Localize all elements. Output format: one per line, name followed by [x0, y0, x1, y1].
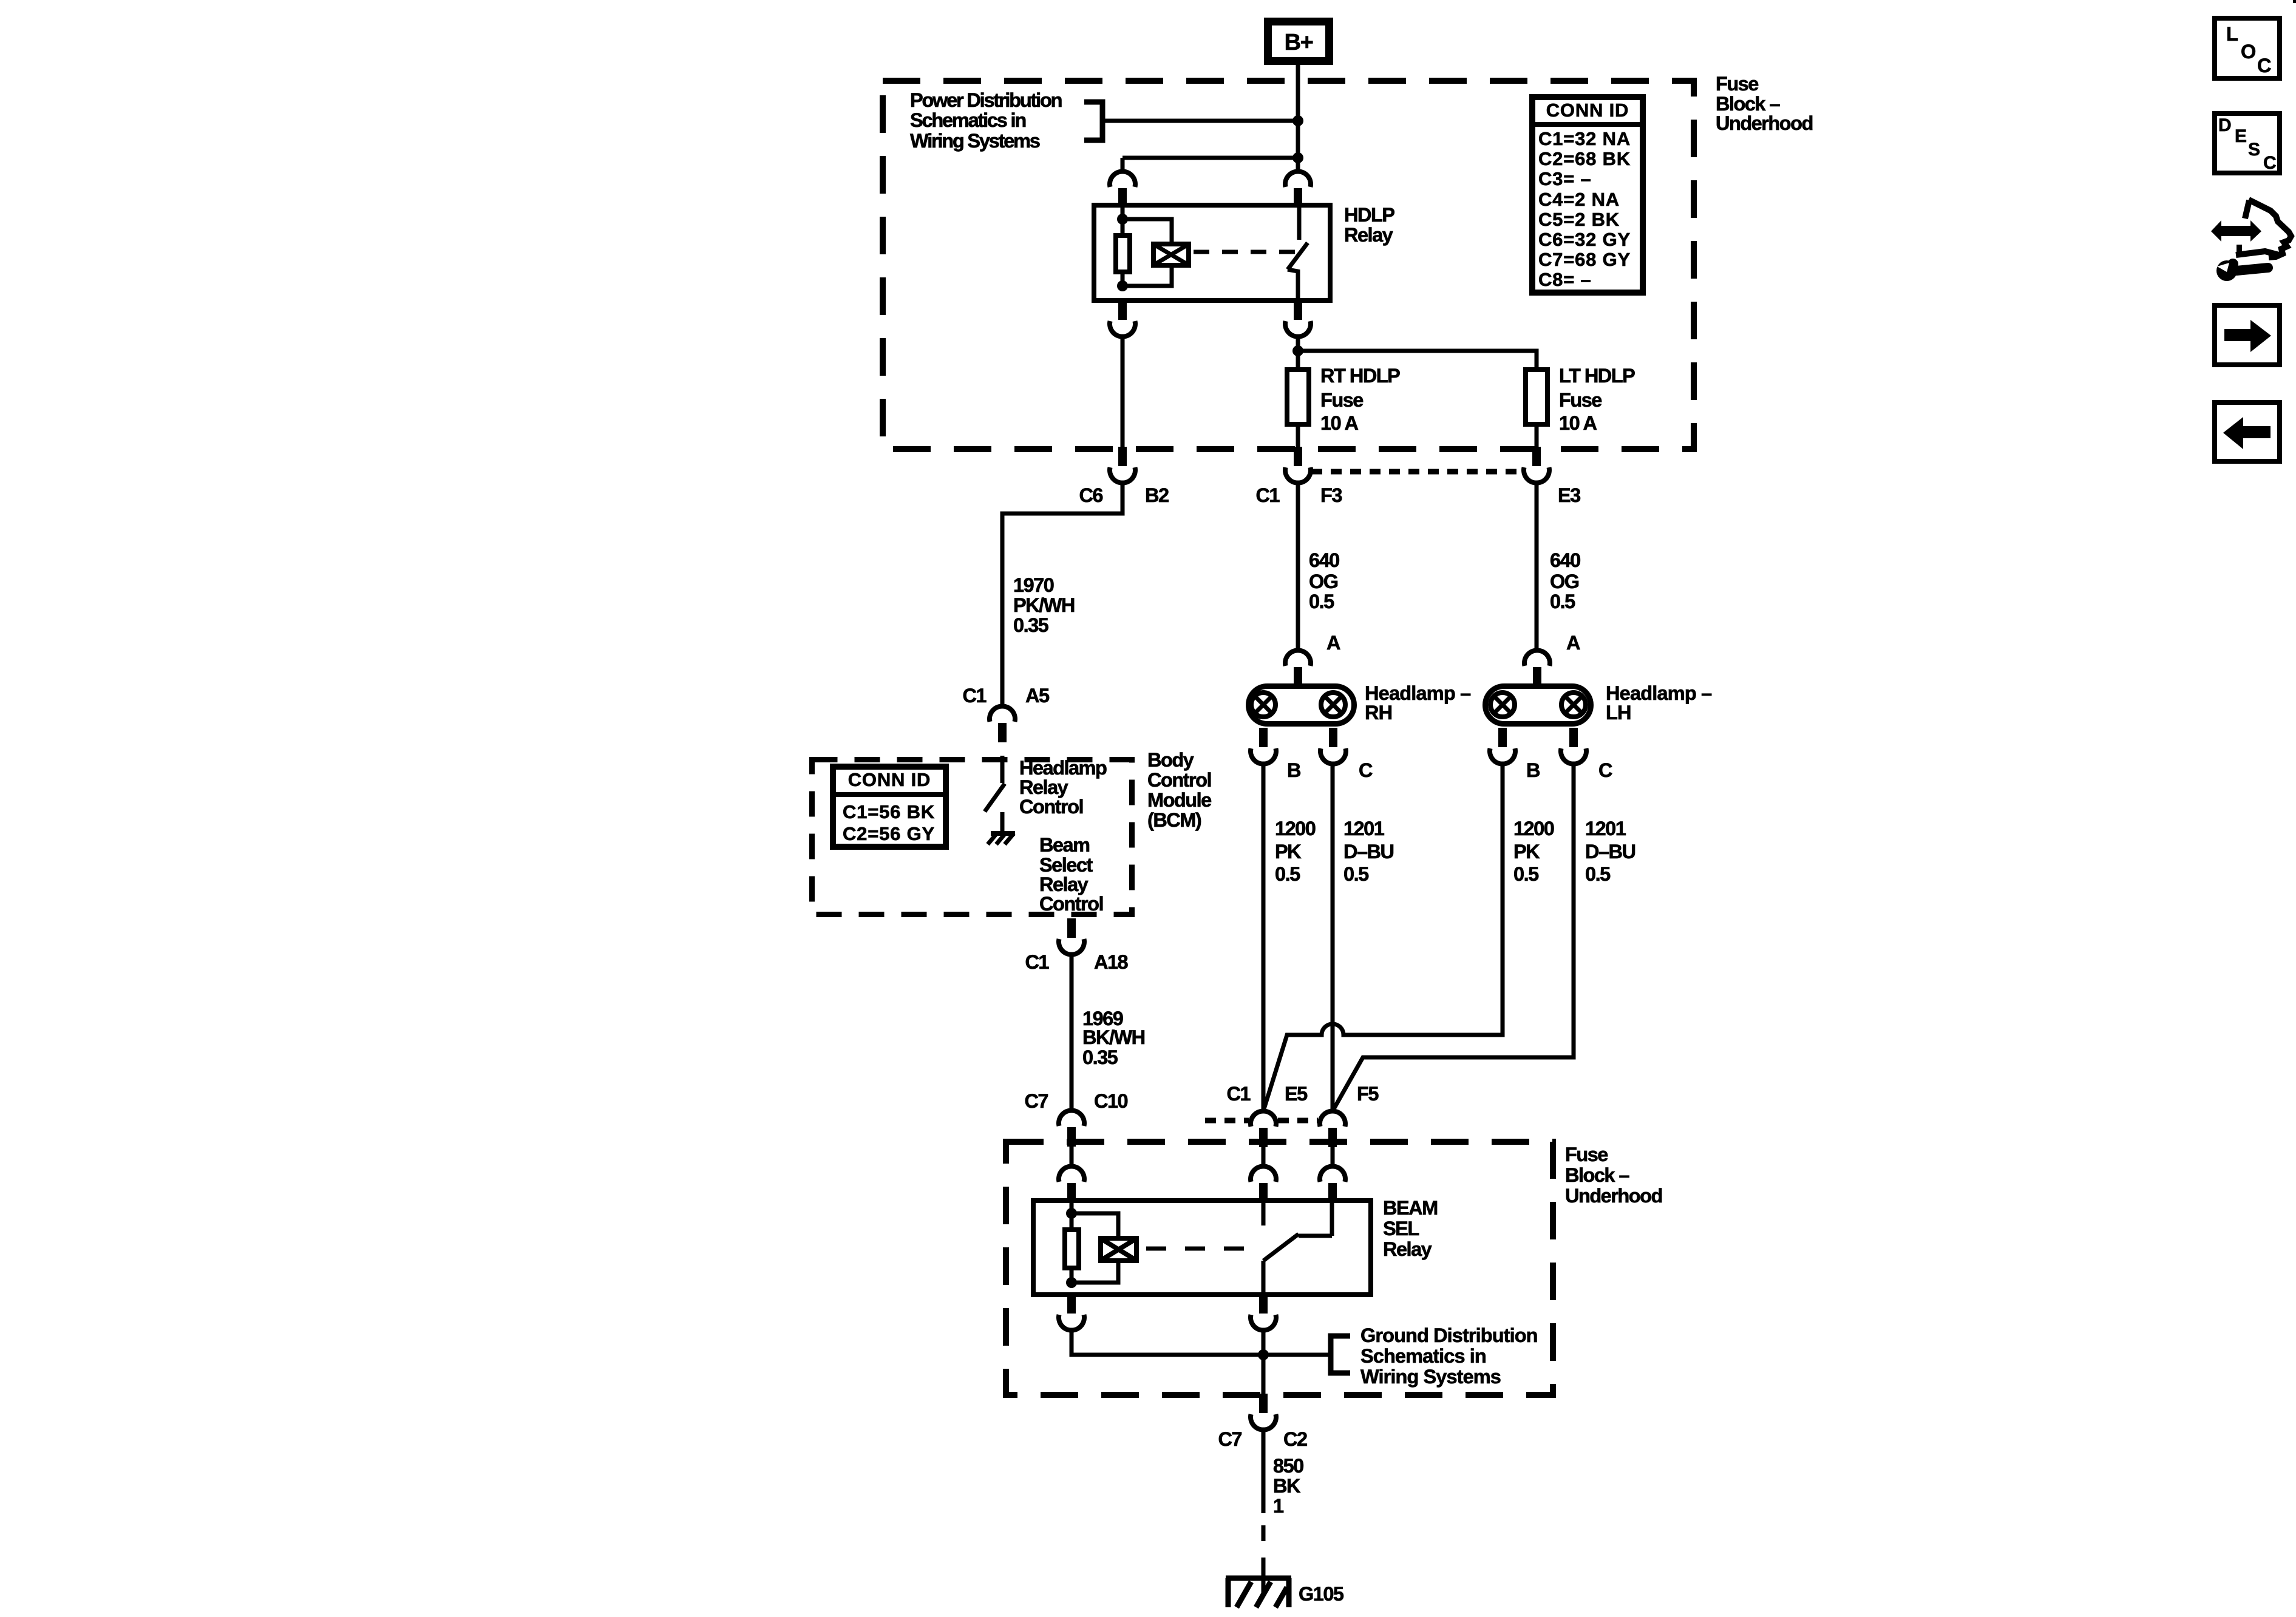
- svg-text:Headlamp –: Headlamp –: [1365, 682, 1471, 704]
- svg-text:Relay: Relay: [1039, 873, 1089, 895]
- svg-text:640: 640: [1309, 549, 1339, 571]
- svg-text:C1: C1: [962, 685, 987, 707]
- svg-text:0.5: 0.5: [1513, 863, 1539, 885]
- svg-text:C: C: [2263, 153, 2276, 173]
- svg-text:CONN ID: CONN ID: [848, 769, 931, 790]
- svg-text:C: C: [1598, 759, 1612, 781]
- svg-text:Beam: Beam: [1039, 834, 1090, 856]
- svg-text:C1=56 BK: C1=56 BK: [843, 801, 935, 822]
- svg-text:Select: Select: [1039, 854, 1093, 876]
- svg-text:F5: F5: [1357, 1083, 1379, 1105]
- svg-text:PK/WH: PK/WH: [1013, 594, 1075, 616]
- svg-text:850: 850: [1273, 1455, 1303, 1477]
- svg-text:Fuse: Fuse: [1565, 1144, 1608, 1165]
- svg-text:Control: Control: [1039, 893, 1103, 915]
- svg-text:BEAM: BEAM: [1383, 1197, 1438, 1219]
- svg-text:Relay: Relay: [1383, 1238, 1432, 1260]
- svg-text:HDLP: HDLP: [1344, 204, 1394, 226]
- svg-text:OG: OG: [1550, 571, 1579, 592]
- svg-text:B: B: [1287, 759, 1300, 781]
- svg-text:CONN ID: CONN ID: [1546, 100, 1629, 121]
- svg-text:LT HDLP: LT HDLP: [1559, 365, 1635, 387]
- svg-text:0.5: 0.5: [1309, 591, 1334, 612]
- svg-text:Body: Body: [1147, 749, 1194, 771]
- svg-text:C1: C1: [1226, 1083, 1251, 1105]
- svg-text:C6=32 GY: C6=32 GY: [1538, 229, 1631, 250]
- svg-text:Relay: Relay: [1019, 776, 1068, 798]
- svg-text:Schematics in: Schematics in: [1360, 1345, 1486, 1367]
- svg-text:PK: PK: [1275, 841, 1302, 863]
- svg-text:A: A: [1326, 632, 1340, 654]
- svg-text:BK/WH: BK/WH: [1082, 1026, 1145, 1048]
- svg-text:D–BU: D–BU: [1343, 841, 1394, 863]
- svg-text:1: 1: [1273, 1495, 1284, 1517]
- svg-text:C: C: [2257, 55, 2271, 76]
- svg-text:0.35: 0.35: [1013, 614, 1049, 636]
- svg-text:D: D: [2218, 115, 2231, 135]
- svg-text:640: 640: [1550, 549, 1580, 571]
- svg-text:Wiring Systems: Wiring Systems: [1360, 1366, 1501, 1388]
- svg-text:Underhood: Underhood: [1565, 1185, 1662, 1207]
- svg-text:B: B: [1526, 759, 1540, 781]
- svg-text:C1=32 NA: C1=32 NA: [1538, 128, 1631, 149]
- svg-text:OG: OG: [1309, 571, 1338, 592]
- svg-text:Control: Control: [1019, 796, 1083, 818]
- svg-text:10 A: 10 A: [1320, 412, 1358, 434]
- svg-text:1201: 1201: [1585, 818, 1626, 839]
- svg-text:C8= –: C8= –: [1538, 269, 1592, 290]
- svg-text:C: C: [1359, 759, 1373, 781]
- svg-text:Wiring Systems: Wiring Systems: [910, 130, 1040, 152]
- svg-text:S: S: [2248, 140, 2260, 160]
- svg-text:Block –: Block –: [1716, 93, 1781, 115]
- svg-text:0.5: 0.5: [1343, 863, 1369, 885]
- svg-text:C10: C10: [1094, 1090, 1128, 1112]
- svg-text:A: A: [1566, 632, 1580, 654]
- svg-text:RH: RH: [1365, 702, 1392, 724]
- svg-text:D–BU: D–BU: [1585, 841, 1635, 863]
- svg-text:A5: A5: [1025, 685, 1050, 707]
- svg-text:(BCM): (BCM): [1147, 809, 1201, 831]
- svg-text:E3: E3: [1558, 484, 1580, 506]
- svg-text:F3: F3: [1320, 484, 1342, 506]
- svg-text:Headlamp –: Headlamp –: [1606, 682, 1712, 704]
- svg-text:1200: 1200: [1275, 818, 1316, 839]
- svg-text:LH: LH: [1606, 702, 1631, 724]
- svg-text:RT HDLP: RT HDLP: [1320, 365, 1400, 387]
- svg-text:G105: G105: [1299, 1583, 1344, 1605]
- svg-text:0.5: 0.5: [1550, 591, 1575, 612]
- svg-text:Fuse: Fuse: [1716, 73, 1758, 95]
- svg-text:C7: C7: [1218, 1428, 1241, 1450]
- svg-text:E: E: [2235, 126, 2246, 146]
- svg-text:BK: BK: [1273, 1475, 1301, 1497]
- svg-text:Relay: Relay: [1344, 224, 1393, 246]
- svg-text:A18: A18: [1094, 951, 1129, 973]
- svg-text:O: O: [2241, 41, 2255, 63]
- svg-text:Schematics in: Schematics in: [910, 109, 1025, 131]
- svg-text:C3= –: C3= –: [1538, 168, 1592, 189]
- svg-text:1200: 1200: [1513, 818, 1554, 839]
- svg-text:C2=68 BK: C2=68 BK: [1538, 148, 1631, 169]
- svg-text:C2: C2: [1283, 1428, 1307, 1450]
- svg-text:0.35: 0.35: [1082, 1046, 1118, 1068]
- svg-text:Underhood: Underhood: [1716, 112, 1813, 134]
- svg-text:B2: B2: [1145, 484, 1169, 506]
- svg-text:C1: C1: [1025, 951, 1049, 973]
- svg-text:Ground Distribution: Ground Distribution: [1360, 1324, 1538, 1346]
- svg-text:C2=56 GY: C2=56 GY: [843, 823, 935, 844]
- svg-text:PK: PK: [1513, 841, 1540, 863]
- svg-text:Power Distribution: Power Distribution: [910, 89, 1062, 111]
- svg-text:0.5: 0.5: [1585, 863, 1611, 885]
- svg-text:L: L: [2226, 23, 2238, 45]
- svg-text:10 A: 10 A: [1559, 412, 1597, 434]
- svg-text:E5: E5: [1285, 1083, 1308, 1105]
- svg-text:Module: Module: [1147, 789, 1211, 811]
- svg-text:Headlamp: Headlamp: [1019, 757, 1107, 779]
- svg-text:0.5: 0.5: [1275, 863, 1300, 885]
- svg-text:C4=2 NA: C4=2 NA: [1538, 189, 1620, 210]
- svg-text:1201: 1201: [1343, 818, 1385, 839]
- svg-text:Fuse: Fuse: [1559, 389, 1601, 411]
- svg-text:C7: C7: [1024, 1090, 1048, 1112]
- svg-text:Fuse: Fuse: [1320, 389, 1363, 411]
- svg-text:Block –: Block –: [1565, 1164, 1630, 1186]
- svg-text:1970: 1970: [1013, 574, 1054, 596]
- svg-text:C7=68 GY: C7=68 GY: [1538, 249, 1631, 270]
- svg-text:Control: Control: [1147, 769, 1211, 791]
- svg-text:B+: B+: [1285, 30, 1313, 55]
- svg-text:C5=2 BK: C5=2 BK: [1538, 209, 1620, 230]
- svg-text:SEL: SEL: [1383, 1218, 1419, 1239]
- svg-text:C6: C6: [1079, 484, 1102, 506]
- svg-text:C1: C1: [1255, 484, 1280, 506]
